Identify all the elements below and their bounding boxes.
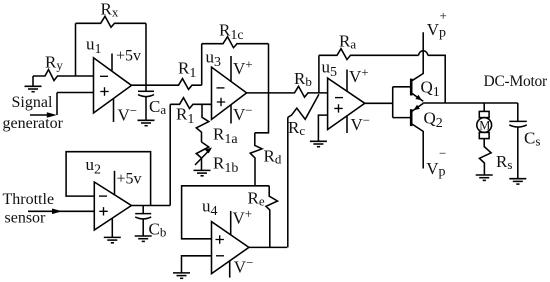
svg-text:u3: u3 — [206, 48, 222, 71]
wire (Rc riser) — [287, 117, 289, 247]
svg-text:Vp−: Vp− — [426, 146, 446, 180]
svg-text:V+: V+ — [349, 65, 369, 87]
ground (under u2) — [104, 237, 121, 242]
transistor Q1 — [411, 32, 423, 101]
wire (u1 minus feedback riser) — [75, 23, 77, 76]
svg-text:Rx: Rx — [101, 0, 119, 19]
svg-text:Rb: Rb — [294, 69, 312, 89]
node (signal arrowhead) — [47, 112, 57, 118]
ground (under Ca) — [138, 120, 155, 125]
svg-text:R1a: R1a — [213, 125, 238, 148]
svg-text:Cb: Cb — [149, 220, 167, 240]
ground (under Cb) — [135, 236, 152, 241]
svg-text:+5v: +5v — [116, 48, 141, 65]
wire (V- stub u5) — [346, 116, 348, 133]
wire (u4 minus to ground) — [182, 256, 212, 273]
wire (V- stub u4) — [229, 261, 231, 278]
op-amp U5 — [328, 78, 365, 129]
ground (under R1b) — [194, 170, 211, 175]
ground (u5 plus) — [310, 141, 327, 146]
ground (under Cs) — [509, 179, 526, 184]
svg-text:R1: R1 — [178, 59, 196, 82]
resistor Rs (vertical) — [479, 139, 491, 175]
svg-text:R1: R1 — [176, 105, 194, 128]
svg-text:Q1: Q1 — [421, 78, 440, 101]
wire (V+ stub u5) — [346, 70, 348, 92]
svg-text:M: M — [479, 119, 490, 133]
wire (Rd tap from u3 output) — [255, 93, 269, 133]
svg-text:Rs: Rs — [496, 152, 512, 172]
wire (V- stub u1) — [113, 99, 115, 122]
svg-text:generator: generator — [3, 115, 64, 132]
svg-text:Vp+: Vp+ — [427, 8, 447, 41]
wire (u3 output to u5 minus) / resistor Rb — [247, 86, 328, 97]
wire (+5v stub u1) — [111, 54, 113, 71]
capacitor Ca — [138, 85, 154, 120]
svg-text:R1c: R1c — [219, 21, 244, 44]
wire (base riser) — [393, 87, 411, 118]
wire (V- stub u3) — [230, 105, 232, 124]
wire (u1 output to u3 minus) / resistor R1 top — [132, 79, 202, 90]
svg-text:u4: u4 — [202, 197, 218, 220]
svg-text:u2: u2 — [86, 155, 102, 178]
svg-text:Rc: Rc — [288, 118, 305, 138]
wire (signal arrow + riser to u1 plus input) — [30, 93, 94, 116]
ground (u4 minus) — [173, 273, 190, 278]
wire (output rail) — [423, 101, 518, 104]
resistor Rc (diagonal) — [288, 94, 319, 119]
op-amp U3 — [212, 67, 247, 119]
wire (u2 output riser to R1 bottom) — [169, 104, 171, 205]
resistor Ra — [319, 49, 419, 60]
resistor Re (vertical) — [266, 186, 278, 248]
node (R1b wiper arrow) — [195, 148, 212, 166]
wire (throttle arrow into u2 plus) — [28, 210, 94, 212]
op-amp U4 — [212, 222, 249, 274]
svg-text:Ra: Ra — [339, 32, 356, 52]
svg-text:R1b: R1b — [213, 154, 238, 177]
motor M branch — [477, 103, 492, 139]
wire (u5 output to bases) — [365, 102, 393, 104]
wire (V+ stub u4) — [230, 211, 232, 235]
wire (R1c down to u3 output) — [268, 44, 270, 93]
svg-text:V−: V− — [351, 113, 371, 135]
resistor R1b (variable, vertical) — [196, 142, 209, 170]
svg-text:V−: V− — [234, 255, 254, 277]
capacitor Cs — [509, 103, 527, 179]
op-amp U1 — [94, 58, 132, 113]
resistor Rd (vertical) — [250, 133, 262, 186]
ground (under Rs) — [476, 175, 493, 180]
wire (u3 minus feedback riser) — [201, 44, 203, 85]
svg-text:V−: V− — [233, 102, 253, 124]
svg-text:u1: u1 — [86, 35, 102, 58]
op-amp U2 — [94, 182, 131, 230]
wire (u4 output) — [249, 246, 287, 248]
capacitor Cb — [135, 206, 151, 237]
wire (Rx down to u1 output) — [145, 23, 147, 85]
wire (Ra feedback riser) — [318, 55, 320, 93]
wire (u2 bottom to ground) — [111, 218, 113, 237]
svg-text:Signal: Signal — [12, 94, 53, 111]
svg-text:u5: u5 — [322, 58, 338, 81]
resistor R1 bottom (to u3 plus) — [170, 98, 211, 109]
svg-text:Q2: Q2 — [424, 108, 443, 131]
svg-text:+5v: +5v — [117, 171, 142, 188]
wire (u4 plus loop) — [182, 186, 270, 239]
wire (u5 plus to ground) — [318, 115, 327, 141]
wire (V+ stub u3) — [230, 56, 232, 82]
resistor Ry — [33, 70, 94, 81]
svg-text:V+: V+ — [233, 206, 253, 228]
resistor R1a (vertical) — [196, 104, 209, 142]
ground (left of Ry) — [25, 76, 42, 92]
resistor R1c — [202, 37, 269, 48]
node (throttle arrowhead) — [52, 209, 62, 215]
svg-text:Throttle: Throttle — [3, 191, 55, 208]
svg-text:Ca: Ca — [149, 97, 166, 117]
svg-text:V−: V− — [118, 103, 138, 125]
svg-text:V+: V+ — [233, 57, 253, 79]
wire (Ra hop over Vp+ and down to output rail) — [419, 51, 446, 103]
resistor Rx — [76, 16, 147, 27]
wire (u2 output) — [131, 205, 170, 207]
wire (+5v stub u2) — [114, 171, 116, 196]
svg-text:DC-Motor: DC-Motor — [484, 73, 549, 90]
svg-text:Cs: Cs — [524, 129, 540, 149]
svg-text:Rd: Rd — [264, 147, 282, 167]
transistor Q2 — [411, 103, 423, 168]
svg-text:sensor: sensor — [5, 210, 47, 227]
op-amp U2 feedback loop wire — [66, 152, 151, 206]
svg-text:Ry: Ry — [45, 53, 63, 73]
